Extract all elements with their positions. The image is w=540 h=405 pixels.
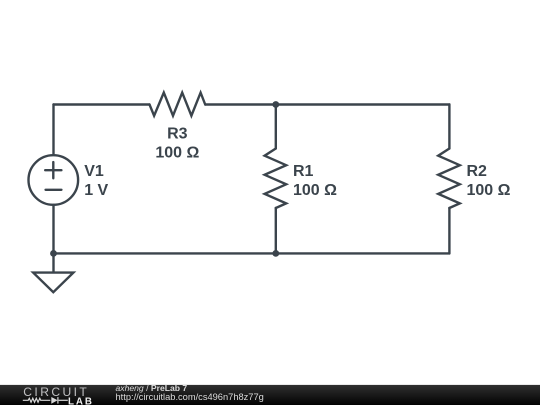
- wire left branch to ground: [52, 253, 54, 272]
- wire middle branch lower: [275, 208, 277, 253]
- wire left branch lower: [52, 205, 54, 254]
- svg-text:R1: R1: [293, 163, 314, 180]
- svg-text:R3: R3: [167, 125, 188, 142]
- V1 plus sign: [45, 162, 61, 178]
- wire right branch upper: [448, 105, 450, 149]
- svg-text:http://circuitlab.com/cs496n7h: http://circuitlab.com/cs496n7h8z77g: [116, 392, 264, 402]
- node junction dot bottom left: [50, 250, 57, 257]
- wire left branch upper: [52, 105, 54, 156]
- resistor R3 zigzag: [150, 93, 206, 116]
- svg-text:100 Ω: 100 Ω: [155, 145, 199, 162]
- node junction dot top middle: [272, 101, 279, 108]
- logo diode triangle: [51, 397, 57, 404]
- wire right branch lower: [448, 208, 450, 253]
- node junction dot bottom middle: [272, 250, 279, 257]
- svg-text:100 Ω: 100 Ω: [467, 182, 511, 199]
- wire middle branch upper: [275, 105, 277, 149]
- svg-text:R2: R2: [467, 163, 488, 180]
- svg-text:LAB: LAB: [68, 397, 94, 405]
- resistor R2 zigzag: [438, 149, 460, 209]
- wire top-left horizontal segment: [54, 103, 150, 105]
- svg-text:100 Ω: 100 Ω: [293, 182, 337, 199]
- svg-text:V1: V1: [84, 163, 104, 180]
- svg-text:1 V: 1 V: [84, 182, 108, 199]
- voltage source V1 circle: [29, 155, 79, 205]
- V1 minus sign: [46, 189, 62, 191]
- ground symbol: [33, 273, 73, 293]
- logo resistor zigzag: [23, 397, 68, 404]
- wire top-right horizontal segment: [205, 103, 449, 105]
- wire bottom horizontal: [54, 252, 450, 254]
- resistor R1 zigzag: [265, 149, 287, 209]
